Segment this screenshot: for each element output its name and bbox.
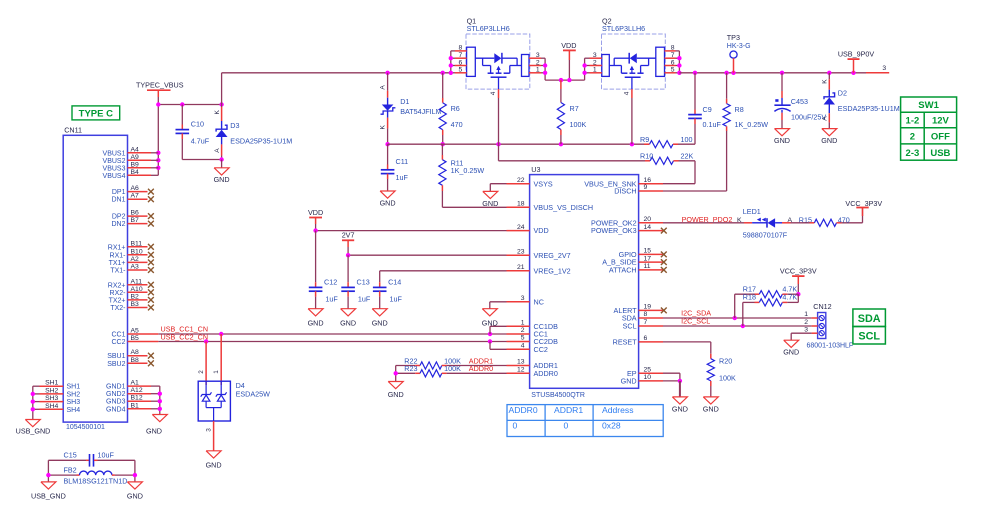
svg-text:2: 2 bbox=[198, 370, 205, 374]
wire CC1 to U3 CC1DB bbox=[489, 326, 491, 334]
svg-text:GND: GND bbox=[783, 348, 799, 357]
svg-text:OFF: OFF bbox=[931, 132, 950, 143]
svg-text:12V: 12V bbox=[932, 116, 950, 127]
svg-text:U3: U3 bbox=[531, 165, 540, 174]
svg-text:12: 12 bbox=[517, 367, 525, 374]
svg-text:C9: C9 bbox=[703, 105, 712, 114]
svg-text:1: 1 bbox=[213, 370, 220, 374]
svg-text:R10: R10 bbox=[640, 152, 653, 161]
svg-text:15: 15 bbox=[644, 248, 652, 255]
svg-text:RESET: RESET bbox=[613, 338, 638, 347]
label SDA green box bbox=[853, 309, 886, 327]
svg-text:K: K bbox=[380, 125, 387, 130]
svg-text:GND: GND bbox=[821, 136, 837, 145]
svg-text:1-2: 1-2 bbox=[906, 116, 920, 127]
svg-text:TP3: TP3 bbox=[727, 33, 740, 42]
svg-text:USB_9P0V: USB_9P0V bbox=[838, 49, 875, 58]
ground GND (CN12 pin3) bbox=[791, 332, 811, 334]
label SCL green box bbox=[853, 327, 886, 345]
svg-text:470: 470 bbox=[838, 215, 850, 224]
capacitor C13 1uF bbox=[347, 255, 349, 282]
svg-text:100K: 100K bbox=[444, 364, 461, 373]
net I2C_SCL wire bbox=[663, 325, 812, 327]
svg-text:5: 5 bbox=[521, 335, 525, 342]
wire output bus USB_9P0V bbox=[679, 72, 866, 74]
svg-text:C12: C12 bbox=[324, 277, 337, 286]
wire VREG_1V2 to U3 pin 21 bbox=[380, 270, 507, 272]
svg-text:USB: USB bbox=[930, 148, 950, 159]
svg-text:23: 23 bbox=[517, 248, 525, 255]
svg-text:STL6P3LLH6: STL6P3LLH6 bbox=[467, 24, 510, 33]
svg-text:7: 7 bbox=[644, 319, 648, 326]
svg-text:SW1: SW1 bbox=[918, 100, 939, 111]
U3 pin 9 DISCH bbox=[639, 190, 663, 192]
svg-text:GND: GND bbox=[340, 318, 356, 327]
svg-text:VCC_3P3V: VCC_3P3V bbox=[780, 267, 817, 276]
U3 pin 4 CC2 bbox=[507, 348, 530, 350]
svg-text:SDA: SDA bbox=[858, 313, 881, 325]
U3 pin 24 VDD bbox=[507, 230, 530, 232]
svg-text:C15: C15 bbox=[64, 450, 77, 459]
wire C15/FB2 right to GND bbox=[134, 460, 136, 482]
U3 pin 16 VBUS_EN_SNK bbox=[639, 183, 663, 185]
svg-text:BLM18SG121TN1D: BLM18SG121TN1D bbox=[64, 476, 128, 485]
U3 pin 1 CC1DB bbox=[507, 325, 530, 327]
ground GND (CN11 GND pins) bbox=[152, 415, 167, 422]
ground GND (R22/R23) bbox=[388, 382, 403, 389]
svg-text:SBU1: SBU1 bbox=[107, 353, 125, 360]
svg-text:1uF: 1uF bbox=[325, 294, 338, 303]
U3 pin 3 NC bbox=[507, 301, 530, 303]
svg-text:0: 0 bbox=[564, 420, 569, 430]
svg-text:POWER_PDO2: POWER_PDO2 bbox=[682, 215, 733, 224]
svg-text:VDD: VDD bbox=[308, 208, 323, 217]
power VCC_3P3V (LED1) bbox=[862, 208, 864, 223]
svg-text:R20: R20 bbox=[719, 357, 732, 366]
resistor R11 1K_0.25W bbox=[441, 144, 443, 155]
svg-text:DN2: DN2 bbox=[111, 221, 125, 228]
svg-text:4.7uF: 4.7uF bbox=[191, 136, 210, 145]
svg-text:CC2: CC2 bbox=[111, 339, 125, 346]
U3 pin 6 RESET bbox=[639, 341, 663, 343]
wire TYPEC_VBUS vertical to VBUS pins bbox=[157, 90, 159, 97]
svg-text:16: 16 bbox=[644, 177, 652, 184]
ground GND (R20) bbox=[703, 397, 718, 404]
resistor R6 470 bbox=[442, 73, 444, 98]
svg-text:C11: C11 bbox=[396, 157, 409, 166]
label TYPE C bbox=[72, 106, 120, 120]
svg-text:SCL: SCL bbox=[623, 322, 637, 331]
svg-text:R8: R8 bbox=[735, 105, 744, 114]
ground GND (U3 NC pin3) bbox=[490, 301, 507, 303]
ground GND (C11) bbox=[380, 191, 395, 198]
svg-text:18: 18 bbox=[517, 201, 525, 208]
wire up to main VBUS bus bbox=[221, 73, 223, 105]
svg-text:DN1: DN1 bbox=[111, 197, 125, 204]
svg-text:GND: GND bbox=[703, 405, 719, 414]
svg-text:FB2: FB2 bbox=[64, 465, 77, 474]
ground GND (C15/FB2) bbox=[127, 482, 142, 489]
svg-text:2: 2 bbox=[804, 319, 808, 326]
U3 pin 23 VREG_2V7 bbox=[507, 254, 530, 256]
svg-text:VBUS2: VBUS2 bbox=[103, 158, 126, 165]
capacitor C11 1uF bbox=[387, 144, 389, 164]
ground GND (D4) bbox=[206, 451, 221, 458]
svg-text:TYPE C: TYPE C bbox=[79, 108, 113, 119]
svg-text:9: 9 bbox=[644, 184, 648, 191]
svg-text:SH2: SH2 bbox=[67, 391, 81, 398]
U3 pin 17 A_B_SIDE bbox=[639, 261, 663, 263]
ground GND (U3 VSYS pin22) bbox=[490, 183, 506, 185]
svg-text:SH3: SH3 bbox=[67, 399, 81, 406]
wire main VBUS bus to Q1 bbox=[222, 72, 451, 74]
svg-text:ADDR0: ADDR0 bbox=[509, 405, 538, 415]
svg-text:A: A bbox=[214, 148, 221, 153]
ground USB_GND (C15/FB2) bbox=[41, 482, 56, 489]
svg-text:C453: C453 bbox=[791, 97, 808, 106]
svg-text:GND3: GND3 bbox=[106, 399, 126, 406]
svg-text:DP1: DP1 bbox=[112, 189, 126, 196]
svg-text:STL6P3LLH6: STL6P3LLH6 bbox=[602, 24, 645, 33]
svg-text:K: K bbox=[822, 79, 829, 84]
wire R22/R23 to ground bbox=[395, 366, 397, 382]
resistor R7 100K bbox=[560, 80, 562, 89]
svg-text:R7: R7 bbox=[570, 104, 579, 113]
ground GND (D3/C10) bbox=[221, 160, 223, 168]
svg-text:3: 3 bbox=[882, 65, 886, 72]
svg-text:1uF: 1uF bbox=[358, 294, 371, 303]
wire VDD to U3 pin 24 bbox=[316, 230, 507, 232]
svg-text:GND: GND bbox=[127, 491, 143, 500]
svg-text:GND: GND bbox=[388, 390, 404, 399]
svg-text:0.1uF: 0.1uF bbox=[703, 120, 722, 129]
U3 pin 12 ADDR0 bbox=[507, 372, 530, 374]
svg-text:GND: GND bbox=[372, 318, 388, 327]
svg-text:GND: GND bbox=[146, 427, 162, 436]
U3 pin 19 ALERT bbox=[639, 309, 663, 311]
IC U3 STUSB4500QTR bbox=[530, 175, 639, 389]
U3 pin 22 VSYS bbox=[507, 183, 530, 185]
ground GND (C453) bbox=[775, 129, 790, 136]
svg-text:ESDA25P35-1U1M: ESDA25P35-1U1M bbox=[838, 104, 900, 113]
svg-text:100K: 100K bbox=[570, 120, 587, 129]
svg-text:GND: GND bbox=[672, 405, 688, 414]
svg-text:20: 20 bbox=[644, 216, 652, 223]
U3 pin 15 GPIO bbox=[639, 253, 663, 255]
net POWER_PDO2 wire bbox=[663, 222, 744, 224]
svg-text:LED1: LED1 bbox=[743, 207, 761, 216]
svg-text:R23: R23 bbox=[404, 364, 417, 373]
svg-text:GND: GND bbox=[214, 175, 230, 184]
svg-text:1: 1 bbox=[804, 311, 808, 318]
svg-text:VBUS3: VBUS3 bbox=[103, 165, 126, 172]
svg-text:C13: C13 bbox=[357, 277, 370, 286]
table ADDR0/ADDR1/Address bbox=[507, 405, 663, 437]
U3 pin 13 ADDR1 bbox=[507, 365, 530, 367]
svg-text:SCL: SCL bbox=[858, 331, 880, 343]
U3 pin 2 CC1 bbox=[507, 333, 530, 335]
wire SH bus to USB_GND bbox=[32, 386, 34, 419]
svg-text:100: 100 bbox=[681, 135, 693, 144]
resistor R10 22K bbox=[498, 144, 500, 161]
svg-text:1uF: 1uF bbox=[396, 173, 409, 182]
svg-text:100K: 100K bbox=[719, 374, 736, 383]
svg-text:VCC_3P3V: VCC_3P3V bbox=[845, 199, 882, 208]
svg-text:TX1-: TX1- bbox=[110, 268, 126, 275]
svg-text:11: 11 bbox=[644, 263, 651, 270]
svg-text:CN11: CN11 bbox=[64, 126, 82, 135]
wire 2V7 to U3 pin 23 bbox=[348, 254, 506, 256]
svg-text:14: 14 bbox=[644, 224, 652, 231]
svg-text:DISCH: DISCH bbox=[614, 187, 636, 196]
U3 pin 25 EP bbox=[639, 372, 663, 374]
svg-text:USB_CC2_CN: USB_CC2_CN bbox=[161, 332, 209, 341]
TVS array D4 ESDA25W bbox=[220, 334, 222, 360]
capacitor C453 100uF/25V (polarized) bbox=[781, 73, 783, 91]
svg-text:VDD: VDD bbox=[534, 226, 549, 235]
svg-text:A: A bbox=[380, 85, 387, 90]
svg-text:STUSB4500QTR: STUSB4500QTR bbox=[531, 392, 585, 399]
connector CN11 1054500101 (USB Type-C) bbox=[63, 135, 127, 422]
svg-text:TX2+: TX2+ bbox=[109, 297, 126, 304]
wire U3 EP+GND to ground bbox=[663, 372, 680, 374]
wire GND1-4 bus bbox=[151, 385, 160, 387]
svg-text:19: 19 bbox=[644, 304, 652, 311]
wire TYPEC_VBUS horizontal branch bbox=[158, 104, 221, 106]
svg-text:2V7: 2V7 bbox=[342, 231, 355, 240]
svg-text:R9: R9 bbox=[640, 135, 649, 144]
svg-text:24: 24 bbox=[517, 224, 525, 231]
ground GND (C12) bbox=[308, 309, 323, 316]
svg-text:K: K bbox=[737, 217, 742, 224]
svg-text:4.7K: 4.7K bbox=[782, 293, 797, 302]
svg-text:USB_GND: USB_GND bbox=[31, 491, 66, 500]
svg-text:TX2-: TX2- bbox=[110, 305, 126, 312]
svg-text:10uF: 10uF bbox=[98, 450, 115, 459]
svg-text:R6: R6 bbox=[451, 104, 460, 113]
svg-text:GND: GND bbox=[774, 136, 790, 145]
svg-text:VSYS: VSYS bbox=[534, 179, 553, 188]
svg-text:Address: Address bbox=[602, 405, 634, 415]
net I2C_SDA wire bbox=[663, 317, 812, 319]
svg-text:HK-3-G: HK-3-G bbox=[727, 43, 751, 50]
svg-text:470: 470 bbox=[451, 120, 463, 129]
ground GND (C13) bbox=[341, 309, 356, 316]
ferrite bead FB2 BLM18SG121TN1D bbox=[48, 474, 76, 476]
svg-text:A: A bbox=[822, 116, 829, 121]
U3 pin 7 SCL bbox=[639, 325, 663, 327]
svg-text:R18: R18 bbox=[743, 293, 756, 302]
svg-text:0x28: 0x28 bbox=[602, 420, 621, 430]
table SW1 12V/OFF/USB bbox=[901, 97, 957, 160]
U3 pin 20 POWER_OK2 bbox=[639, 222, 663, 224]
wire CC2 to U3 CC2 bbox=[489, 342, 491, 350]
svg-text:K: K bbox=[214, 110, 221, 115]
svg-text:D1: D1 bbox=[400, 97, 409, 106]
svg-text:D2: D2 bbox=[838, 89, 847, 98]
svg-text:VDD: VDD bbox=[561, 41, 576, 50]
net USB_CC2_CN wire bbox=[158, 341, 506, 343]
svg-text:CN12: CN12 bbox=[813, 302, 831, 311]
svg-text:25: 25 bbox=[644, 366, 652, 373]
svg-text:D3: D3 bbox=[230, 121, 239, 130]
svg-text:GND: GND bbox=[206, 460, 222, 469]
svg-text:SBU2: SBU2 bbox=[107, 361, 125, 368]
wire R11 to U3 pin 18 bbox=[442, 206, 506, 208]
svg-text:I2C_SCL: I2C_SCL bbox=[681, 316, 710, 325]
U3 pin 14 POWER_OK3 bbox=[639, 230, 663, 232]
svg-text:1uF: 1uF bbox=[390, 294, 403, 303]
svg-text:GND1: GND1 bbox=[106, 384, 126, 391]
svg-text:RX2-: RX2- bbox=[110, 290, 127, 297]
svg-text:GND2: GND2 bbox=[106, 391, 126, 398]
svg-text:POWER_OK3: POWER_OK3 bbox=[591, 226, 637, 235]
svg-text:22K: 22K bbox=[681, 152, 694, 161]
svg-text:ADDR0: ADDR0 bbox=[534, 369, 558, 378]
U3 pin 21 VREG_1V2 bbox=[507, 270, 530, 272]
svg-text:USB_GND: USB_GND bbox=[16, 427, 51, 436]
D4 pin 3 to ground bbox=[213, 421, 215, 451]
capacitor C12 1uF bbox=[315, 231, 317, 283]
capacitor C10 4.7uF bbox=[181, 105, 183, 125]
svg-text:TYPEC_VBUS: TYPEC_VBUS bbox=[136, 81, 184, 90]
svg-text:3: 3 bbox=[804, 326, 808, 333]
svg-text:C14: C14 bbox=[388, 277, 401, 286]
svg-text:1K_0.25W: 1K_0.25W bbox=[735, 120, 769, 129]
capacitor C9 0.1uF bbox=[694, 73, 696, 110]
svg-text:VREG_2V7: VREG_2V7 bbox=[534, 251, 571, 260]
svg-text:DP2: DP2 bbox=[112, 214, 126, 221]
TVS diode D2 ESDA25P35-1U1M bbox=[828, 73, 830, 80]
svg-text:RX2+: RX2+ bbox=[108, 282, 126, 289]
svg-text:SH4: SH4 bbox=[67, 407, 81, 414]
svg-text:TX1+: TX1+ bbox=[109, 260, 126, 267]
svg-text:4: 4 bbox=[521, 343, 525, 350]
svg-text:6: 6 bbox=[644, 335, 648, 342]
wire C15/FB2 left to USB_GND bbox=[47, 460, 49, 482]
svg-text:GND: GND bbox=[380, 199, 396, 208]
svg-text:VREG_1V2: VREG_1V2 bbox=[534, 266, 571, 275]
svg-text:C10: C10 bbox=[191, 120, 204, 129]
svg-text:3: 3 bbox=[206, 428, 213, 432]
ground USB_GND (CN11 shield) bbox=[25, 420, 40, 427]
svg-text:SH1: SH1 bbox=[67, 384, 81, 391]
svg-text:CC2: CC2 bbox=[534, 345, 548, 354]
svg-text:0: 0 bbox=[513, 420, 518, 430]
U3 pin 11 ATTACH bbox=[639, 269, 663, 271]
svg-text:ESDA25W: ESDA25W bbox=[236, 390, 271, 399]
U3 pin 8 SDA bbox=[639, 317, 663, 319]
svg-text:ADDR0: ADDR0 bbox=[469, 364, 493, 373]
svg-text:GND: GND bbox=[308, 318, 324, 327]
ground GND (D2) bbox=[822, 129, 837, 136]
svg-text:4: 4 bbox=[623, 91, 630, 95]
svg-text:GND: GND bbox=[621, 377, 637, 386]
net USB_CC1_CN wire bbox=[158, 333, 506, 335]
U3 pin 18 VBUS_VS_DISCH bbox=[507, 206, 530, 208]
svg-text:22: 22 bbox=[517, 177, 525, 184]
svg-text:GND: GND bbox=[482, 199, 498, 208]
wire VDD net between Q1 and Q2 bbox=[545, 79, 585, 81]
svg-text:17: 17 bbox=[644, 255, 652, 262]
svg-text:5988070107F: 5988070107F bbox=[743, 230, 788, 239]
svg-text:ADDR1: ADDR1 bbox=[554, 405, 583, 415]
svg-text:1054500101: 1054500101 bbox=[66, 424, 105, 431]
resistor R8 1K_0.25W bbox=[726, 73, 728, 99]
svg-text:RX1+: RX1+ bbox=[108, 244, 126, 251]
svg-text:1K_0.25W: 1K_0.25W bbox=[451, 166, 485, 175]
svg-text:ESDA25P35-1U1M: ESDA25P35-1U1M bbox=[230, 136, 292, 145]
svg-text:21: 21 bbox=[517, 264, 525, 271]
svg-text:NC: NC bbox=[534, 297, 544, 306]
svg-text:GND4: GND4 bbox=[106, 406, 126, 413]
resistor R9 100 bbox=[650, 141, 674, 148]
svg-text:2: 2 bbox=[521, 327, 525, 334]
svg-text:4: 4 bbox=[490, 91, 497, 95]
svg-text:VBUS_VS_DISCH: VBUS_VS_DISCH bbox=[534, 203, 594, 212]
svg-text:CC1: CC1 bbox=[111, 332, 125, 339]
svg-text:VBUS4: VBUS4 bbox=[103, 173, 126, 180]
U3 pin 5 CC2DB bbox=[507, 341, 530, 343]
ground GND (C14) bbox=[372, 309, 387, 316]
svg-text:8: 8 bbox=[644, 311, 648, 318]
svg-text:2: 2 bbox=[910, 132, 915, 143]
svg-text:ATTACH: ATTACH bbox=[609, 266, 637, 275]
U3 pin 10 GND bbox=[639, 380, 663, 382]
capacitor C15 10uF bbox=[48, 459, 86, 461]
resistor R20 100K bbox=[663, 341, 711, 343]
diode D1 BAT54JFILM bbox=[387, 73, 389, 91]
ground GND (U3 EP) bbox=[672, 397, 687, 404]
TVS diode D3 ESDA25P35-1U1M bbox=[221, 105, 223, 108]
wire gate net y=144 bbox=[388, 143, 650, 145]
svg-text:VBUS1: VBUS1 bbox=[103, 150, 126, 157]
svg-text:1: 1 bbox=[521, 320, 525, 327]
svg-text:10: 10 bbox=[644, 374, 652, 381]
svg-text:2-3: 2-3 bbox=[906, 148, 920, 159]
svg-text:68001-103HLF: 68001-103HLF bbox=[807, 343, 854, 350]
svg-text:BAT54JFILM: BAT54JFILM bbox=[400, 107, 441, 116]
capacitor C14 1uF bbox=[379, 271, 381, 282]
svg-text:3: 3 bbox=[521, 295, 525, 302]
svg-text:RX1-: RX1- bbox=[110, 252, 127, 259]
svg-text:13: 13 bbox=[517, 359, 525, 366]
